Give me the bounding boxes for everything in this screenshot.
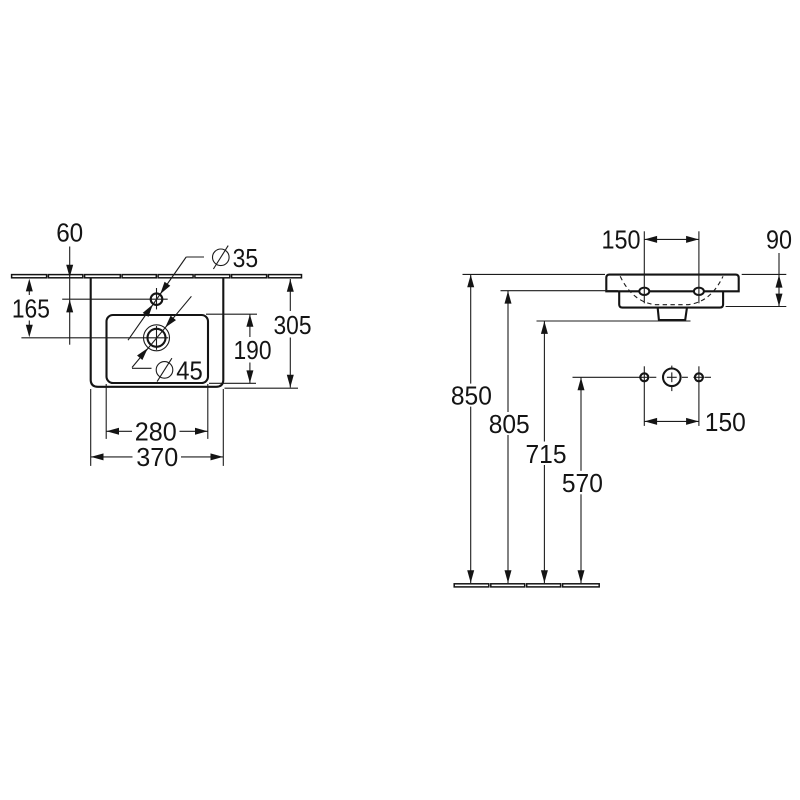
dim 805 ext line <box>501 290 619 292</box>
svg-text:150: 150 <box>602 225 641 255</box>
floor tile band <box>454 584 599 587</box>
drain outer circle <box>144 325 170 351</box>
fixing hole left cross <box>639 376 650 378</box>
tap hole ellipse right <box>694 288 704 295</box>
dim 370 arrows <box>91 453 104 460</box>
dim 305 lines <box>289 279 291 311</box>
tap hole centerline horizontal <box>62 298 168 300</box>
leader arrows Ø35 <box>157 282 170 296</box>
bowl hidden curve (dashed) <box>620 276 723 304</box>
svg-text:35: 35 <box>233 243 259 273</box>
dim 165 lines <box>28 291 30 296</box>
dim 715 ext line <box>537 320 691 322</box>
big hole ticks <box>671 366 673 370</box>
svg-text:60: 60 <box>56 218 83 248</box>
leader stub Ø35 <box>186 256 204 258</box>
dim 715 line <box>543 321 545 442</box>
basin outer outline <box>91 278 224 387</box>
dim 90 ext lines <box>742 273 787 275</box>
svg-text:45: 45 <box>176 355 203 385</box>
svg-text:370: 370 <box>136 442 178 472</box>
fixing hole right circle <box>695 373 703 381</box>
svg-text:305: 305 <box>274 310 312 340</box>
drain box <box>658 308 687 320</box>
dim 570 line <box>580 377 582 471</box>
dim 190 lines <box>249 314 251 337</box>
leader stub Ø45 <box>132 367 152 369</box>
dim 60 arrows <box>66 265 73 278</box>
svg-text:715: 715 <box>526 439 567 469</box>
dim 150 top arrows <box>645 236 658 243</box>
dim 805 line <box>507 291 509 412</box>
dim 370 ext lines <box>90 389 92 466</box>
leader line Ø45 <box>132 296 191 367</box>
dim 850 ext line <box>463 273 606 275</box>
body outline <box>619 291 723 307</box>
svg-text:805: 805 <box>489 409 530 439</box>
dim 150 bottom arrows <box>645 418 658 425</box>
dim 150 top ext lines <box>643 231 645 303</box>
dim 280 line <box>106 430 132 432</box>
dim 190 ext line top <box>206 313 257 315</box>
dim 370 line <box>91 456 133 458</box>
dim 190 arrows <box>246 314 253 327</box>
tap hole circle <box>151 293 163 305</box>
dim 190 ext line bottom <box>209 382 256 384</box>
svg-text:850: 850 <box>451 381 492 411</box>
dim 280 ext lines <box>105 384 107 439</box>
hole centerline dashes <box>650 376 656 378</box>
svg-text:190: 190 <box>234 335 272 365</box>
wall tile band <box>12 275 302 278</box>
drain centerline horizontal <box>21 337 168 339</box>
leader arrows Ø45 <box>163 316 176 330</box>
leader line Ø35 <box>128 257 186 340</box>
tap hole centerline vertical <box>156 288 158 309</box>
tap hole ellipse left <box>639 288 649 295</box>
dim 305 arrows <box>287 279 294 292</box>
dim 90 arrows <box>776 275 783 288</box>
dim 150 bottom line <box>644 420 699 422</box>
dim 90 line <box>778 253 780 306</box>
dim 850 line <box>470 274 472 383</box>
dim 60 lines <box>69 247 71 300</box>
drain inner circle <box>148 329 166 347</box>
basin inner bowl outline <box>107 315 209 383</box>
dim 150 top line <box>644 238 699 240</box>
label Ø45 <box>156 355 203 385</box>
dim 165 arrows <box>26 279 33 292</box>
svg-text:90: 90 <box>766 225 792 255</box>
svg-text:165: 165 <box>12 294 50 324</box>
fixing hole left circle <box>640 373 648 381</box>
label Ø35 <box>213 243 259 273</box>
fixing hole right cross <box>693 376 704 378</box>
dim 305 ext line bottom <box>225 387 299 389</box>
dim 280 arrows <box>106 428 119 435</box>
hole extension verticals <box>643 366 645 426</box>
dim 570 connector line <box>573 376 641 378</box>
svg-text:570: 570 <box>562 468 603 498</box>
waste hole circle <box>663 369 681 387</box>
drain centerline vertical <box>156 326 158 350</box>
svg-text:150: 150 <box>705 407 746 437</box>
rim outline <box>606 275 738 292</box>
